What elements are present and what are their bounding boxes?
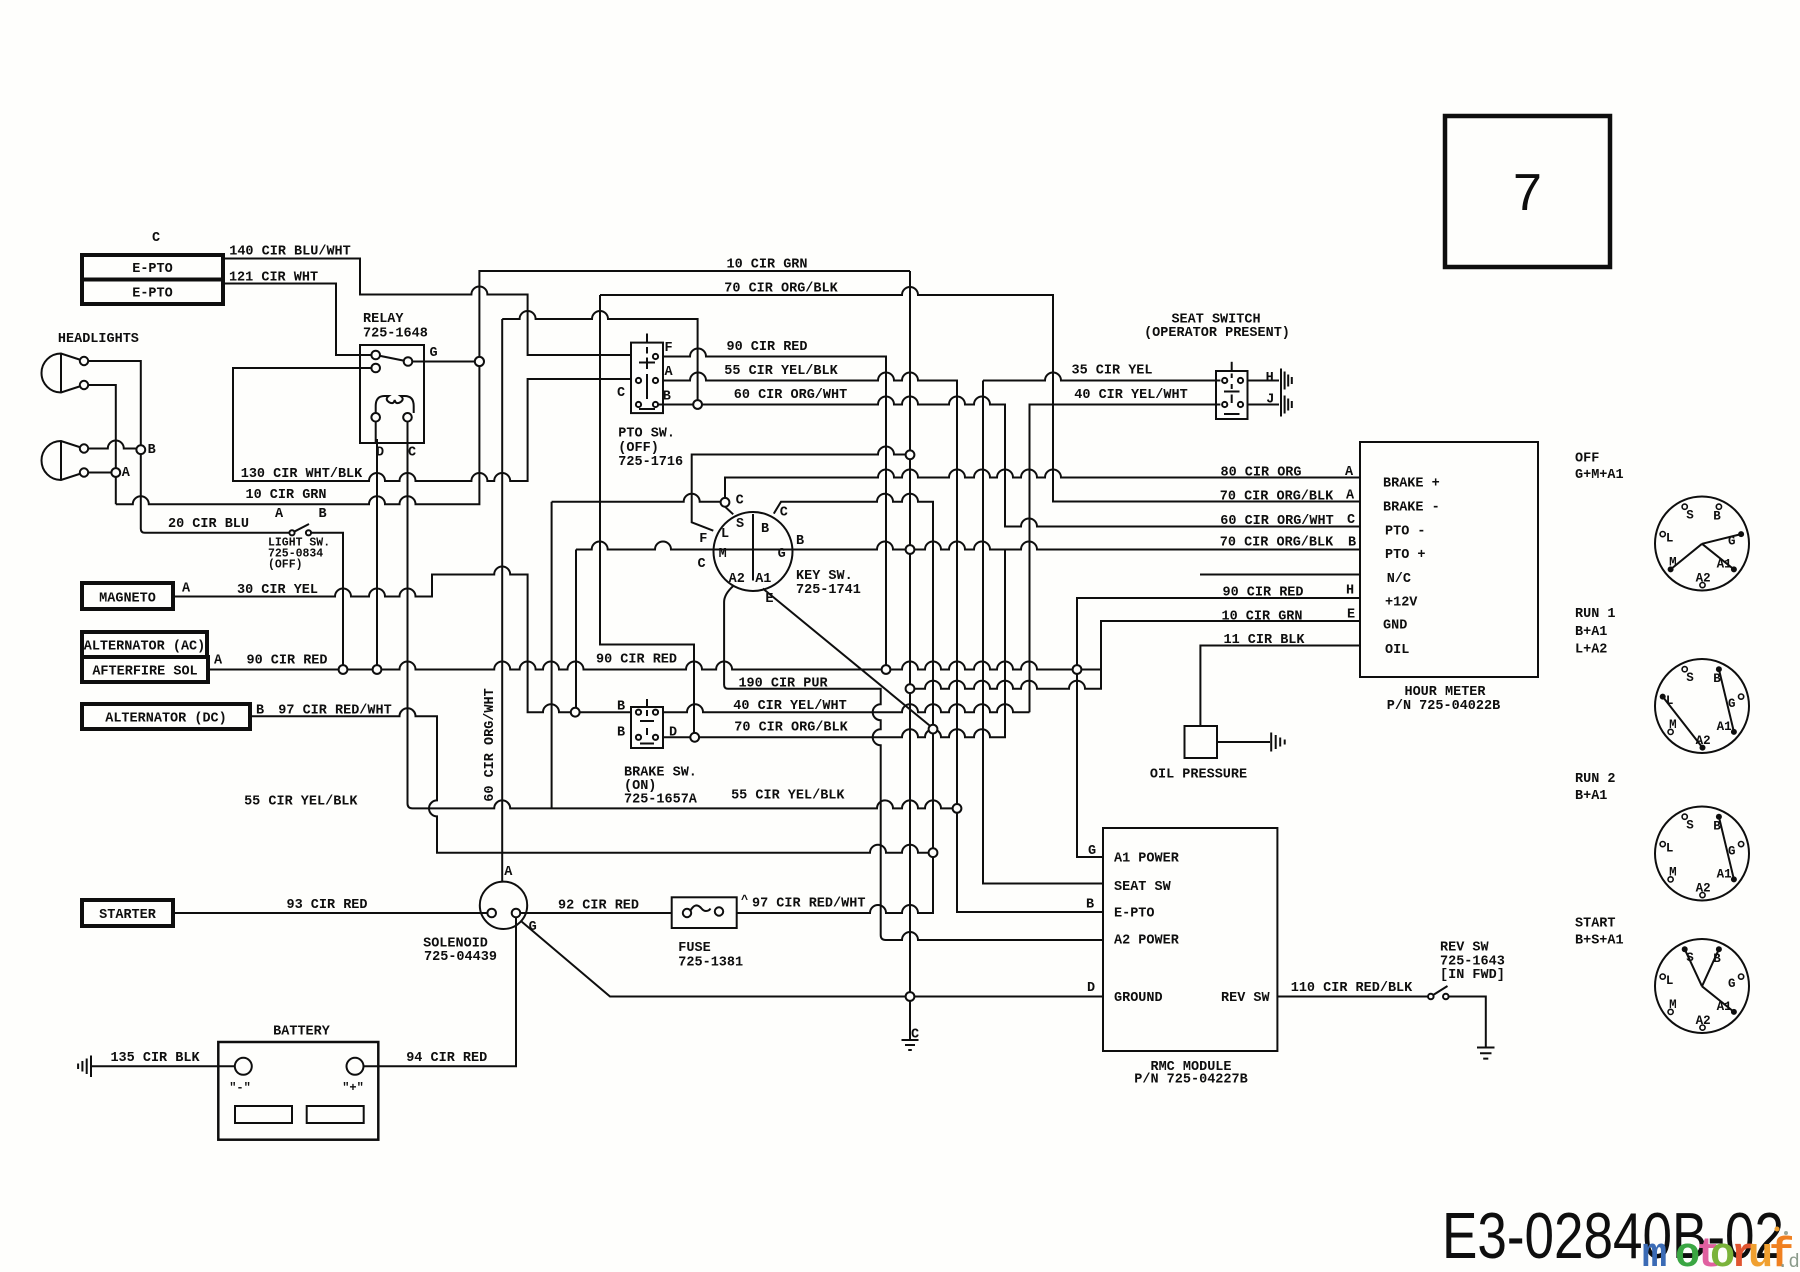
node relay G xyxy=(475,357,484,366)
svg-text:J: J xyxy=(1266,393,1274,408)
svg-text:.de: .de xyxy=(1777,1251,1800,1272)
svg-text:M: M xyxy=(1669,555,1677,569)
seat switch internals xyxy=(1222,362,1243,414)
svg-text:35 CIR YEL: 35 CIR YEL xyxy=(1071,364,1152,379)
svg-text:40 CIR YEL/WHT: 40 CIR YEL/WHT xyxy=(1074,388,1187,403)
svg-text:REV SW: REV SW xyxy=(1221,991,1271,1006)
svg-text:E-PTO: E-PTO xyxy=(1114,907,1155,922)
svg-text:REV SW: REV SW xyxy=(1440,940,1490,955)
wire 319 row to 60-row circle xyxy=(502,311,697,400)
key position circle OFF xyxy=(1655,497,1749,591)
wire rev switch to earth xyxy=(1448,997,1485,1047)
wire 11 CIR BLK to oil pressure xyxy=(1200,646,1360,727)
wire key C diagonal xyxy=(725,507,733,515)
wire ground row right to RMC xyxy=(914,996,1103,998)
key position circle RUN 2 xyxy=(1655,807,1749,901)
svg-text:BRAKE -: BRAKE - xyxy=(1383,501,1440,516)
svg-text:C: C xyxy=(617,386,625,401)
svg-text:B: B xyxy=(256,704,264,719)
wire oil pressure to ground xyxy=(1217,741,1270,743)
wire E-PTO1 140 CIR BLU/WHT to PTO switch F xyxy=(223,259,631,356)
node light switch to 90 red xyxy=(339,665,348,674)
svg-text:725-1381: 725-1381 xyxy=(678,955,743,970)
svg-text:A: A xyxy=(665,365,674,380)
svg-text:ALTERNATOR (DC): ALTERNATOR (DC) xyxy=(105,712,227,727)
svg-text:A: A xyxy=(182,582,191,597)
svg-text:[IN FWD]: [IN FWD] xyxy=(1440,968,1505,983)
svg-text:E: E xyxy=(1347,608,1355,623)
seat switch box xyxy=(1216,371,1248,419)
svg-text:D: D xyxy=(1087,981,1095,996)
wire seat vertical to RMC SEAT SW xyxy=(983,381,1103,884)
solenoid 725-04439 xyxy=(480,882,527,929)
svg-text:STARTER: STARTER xyxy=(99,908,157,923)
svg-text:C: C xyxy=(1347,513,1355,528)
svg-text:B: B xyxy=(761,522,769,537)
svg-text:A2: A2 xyxy=(729,572,745,587)
wire battery minus 135 CIR BLK xyxy=(92,1065,236,1067)
svg-text:A2: A2 xyxy=(1696,571,1711,585)
svg-text:97 CIR RED/WHT: 97 CIR RED/WHT xyxy=(752,897,865,912)
wire 90 CIR RED afterfire row xyxy=(208,669,339,671)
relay blade xyxy=(376,355,408,362)
hour meter box xyxy=(1360,442,1538,677)
svg-text:97 CIR RED/WHT: 97 CIR RED/WHT xyxy=(278,704,391,719)
svg-text:40 CIR YEL/WHT: 40 CIR YEL/WHT xyxy=(733,699,846,714)
svg-text:L: L xyxy=(1666,974,1674,988)
magneto box xyxy=(82,583,173,609)
svg-text:(OFF): (OFF) xyxy=(618,441,659,456)
WIRE LABELS xyxy=(110,245,1413,1066)
wire key M row and 70 ORG/BLK B row to hour meter xyxy=(576,542,906,550)
fuse element xyxy=(683,905,723,917)
svg-text:70 CIR ORG/BLK: 70 CIR ORG/BLK xyxy=(1220,490,1334,505)
svg-text:93 CIR RED: 93 CIR RED xyxy=(286,898,367,913)
svg-text:B+A1: B+A1 xyxy=(1575,789,1607,804)
svg-text:C: C xyxy=(408,446,416,461)
node 60 row PTO B xyxy=(693,400,702,409)
wire E-PTO2 121 CIR WHT to relay xyxy=(223,284,371,356)
svg-text:C: C xyxy=(697,557,705,572)
MODULE INTERNAL LABELS xyxy=(1114,477,1440,1007)
svg-text:B: B xyxy=(1713,510,1721,524)
wire 90 CIR RED H row to hour meter xyxy=(1077,598,1360,665)
ground symbol rev switch (earth) xyxy=(1477,1048,1495,1059)
svg-text:H: H xyxy=(1346,584,1354,599)
svg-text:M: M xyxy=(1669,718,1677,732)
svg-text:A1: A1 xyxy=(1717,868,1732,882)
svg-text:B: B xyxy=(617,700,625,715)
svg-text:92 CIR RED: 92 CIR RED xyxy=(558,899,639,914)
svg-text:60 CIR ORG/WHT: 60 CIR ORG/WHT xyxy=(1220,514,1333,529)
node 90 red F xyxy=(882,665,891,674)
svg-text:C: C xyxy=(911,1028,919,1043)
wire 35 CIR YEL to seat switch xyxy=(983,373,1220,381)
wire battery plus 94 CIR RED to solenoid G xyxy=(363,917,516,1066)
node key B row xyxy=(906,545,915,554)
wire 10 CIR GRN top row xyxy=(479,271,910,357)
light switch 725-0834 contacts xyxy=(289,530,311,535)
svg-text:ALTERNATOR (AC): ALTERNATOR (AC) xyxy=(84,640,206,655)
watermark dots xyxy=(1775,1227,1780,1232)
svg-text:140 CIR BLU/WHT: 140 CIR BLU/WHT xyxy=(229,245,351,260)
svg-text:L: L xyxy=(1666,842,1674,856)
svg-text:"-": "-" xyxy=(229,1081,251,1095)
wire relay pin2 to 130 CIR WHT/BLK to PTO switch A xyxy=(233,368,631,481)
svg-text:B: B xyxy=(796,534,804,549)
svg-text:+12V: +12V xyxy=(1385,596,1418,611)
svg-text:A1 POWER: A1 POWER xyxy=(1114,852,1180,867)
svg-text:55 CIR YEL/BLK: 55 CIR YEL/BLK xyxy=(244,795,358,810)
svg-text:S: S xyxy=(736,517,744,532)
svg-text:BATTERY: BATTERY xyxy=(273,1024,331,1039)
rev switch contacts xyxy=(1428,994,1449,1000)
relay coil xyxy=(376,396,414,413)
svg-text:20 CIR BLU: 20 CIR BLU xyxy=(168,517,249,532)
svg-text:A2: A2 xyxy=(1696,1014,1711,1028)
wire key C row left segment xyxy=(551,502,553,809)
RMC module box xyxy=(1103,828,1277,1051)
svg-text:G: G xyxy=(1728,697,1736,711)
svg-text:F: F xyxy=(699,532,707,547)
wire headlight2 top to node B xyxy=(84,441,136,449)
wire A1 POWER riser xyxy=(1077,674,1103,857)
oil pressure box xyxy=(1185,726,1218,758)
wire PTO B 60 CIR ORG/WHT to hour meter C xyxy=(656,404,694,406)
svg-text:E-PTO: E-PTO xyxy=(132,262,173,277)
svg-text:A: A xyxy=(504,865,513,880)
wire 10 CIR GRN mid row headlights xyxy=(116,366,480,504)
svg-text:B: B xyxy=(1348,536,1356,551)
wire V933 between circles xyxy=(932,734,934,849)
svg-text:B: B xyxy=(318,507,326,522)
svg-text:130 CIR WHT/BLK: 130 CIR WHT/BLK xyxy=(241,467,363,482)
starter box xyxy=(82,900,173,926)
wire PTO A 55 CIR YEL/BLK to RMC E-PTO xyxy=(663,373,1103,913)
svg-text:m: m xyxy=(1642,1231,1667,1272)
fuse box xyxy=(672,897,737,928)
svg-text:(OFF): (OFF) xyxy=(268,559,303,572)
svg-text:135 CIR BLK: 135 CIR BLK xyxy=(110,1051,200,1066)
svg-text:GROUND: GROUND xyxy=(1114,991,1163,1006)
wire relay D vertical xyxy=(376,439,378,665)
E-PTO connector box 2 xyxy=(82,280,223,305)
wire seat switch H out xyxy=(1248,380,1280,382)
svg-text:G: G xyxy=(1728,845,1736,859)
wire key F diagonal up to 455 row xyxy=(692,447,906,531)
wire 40 CIR YEL/WHT mid row xyxy=(663,704,1030,712)
wire starter 93 CIR RED xyxy=(173,912,487,914)
relay pin verticals to box bottom xyxy=(376,422,408,443)
alternator AC box xyxy=(82,632,207,657)
svg-text:MAGNETO: MAGNETO xyxy=(99,591,156,606)
svg-text:70 CIR ORG/BLK: 70 CIR ORG/BLK xyxy=(1220,536,1334,551)
svg-text:PTO -: PTO - xyxy=(1385,525,1426,540)
svg-text:M: M xyxy=(1669,998,1677,1012)
motoruf.de watermark xyxy=(1642,1231,1800,1272)
svg-text:A2: A2 xyxy=(1696,881,1711,895)
svg-text:S: S xyxy=(1686,509,1694,523)
wire N/C stub xyxy=(1200,574,1360,576)
svg-text:725-1741: 725-1741 xyxy=(796,583,861,598)
battery box xyxy=(218,1042,378,1140)
wire 70 top jog to brake D circle xyxy=(600,295,694,733)
wire seat switch J out xyxy=(1248,404,1280,406)
svg-text:^: ^ xyxy=(741,893,748,907)
wire light switch blade xyxy=(292,524,309,533)
svg-text:S: S xyxy=(1686,671,1694,685)
key position circle START xyxy=(1655,939,1749,1033)
svg-text:HEADLIGHTS: HEADLIGHTS xyxy=(58,332,139,347)
svg-text:A1: A1 xyxy=(1717,720,1732,734)
svg-text:G: G xyxy=(778,547,786,562)
headlight 2 lamp symbol xyxy=(42,441,85,480)
svg-text:725-04439: 725-04439 xyxy=(424,950,497,965)
wire ground row at 688 to hour meter GND xyxy=(914,621,1360,689)
node relay D to 90 red xyxy=(373,665,382,674)
wire RMC REV SW 110 CIR RED/BLK xyxy=(1277,996,1428,998)
svg-text:10 CIR GRN: 10 CIR GRN xyxy=(245,488,326,503)
node headlight A xyxy=(111,468,120,477)
svg-text:G: G xyxy=(1728,977,1736,991)
wire fuse 97 CIR RED/WHT to circle xyxy=(737,857,933,913)
wire relay G row xyxy=(412,361,475,363)
svg-text:A: A xyxy=(1346,489,1355,504)
svg-text:190 CIR PUR: 190 CIR PUR xyxy=(738,676,828,691)
svg-text:C: C xyxy=(780,506,788,521)
svg-text:70 CIR ORG/BLK: 70 CIR ORG/BLK xyxy=(724,282,838,297)
svg-text:110 CIR RED/BLK: 110 CIR RED/BLK xyxy=(1291,981,1413,996)
node key C xyxy=(721,498,730,507)
relay pin circles xyxy=(371,351,380,360)
wire key internal vertical chord xyxy=(752,514,754,581)
svg-text:A: A xyxy=(275,507,284,522)
svg-text:RUN 1: RUN 1 xyxy=(1575,607,1616,622)
node 10GRN x455 xyxy=(906,450,915,459)
svg-text:H: H xyxy=(1266,371,1274,386)
svg-text:70 CIR ORG/BLK: 70 CIR ORG/BLK xyxy=(734,721,848,736)
svg-text:10 CIR GRN: 10 CIR GRN xyxy=(1221,610,1302,625)
svg-text:B+S+A1: B+S+A1 xyxy=(1575,934,1624,949)
svg-text:N/C: N/C xyxy=(1387,572,1411,587)
svg-text:E-PTO: E-PTO xyxy=(132,287,173,302)
svg-text:C: C xyxy=(152,231,160,246)
headlight terminals xyxy=(80,357,88,365)
svg-text:10 CIR GRN: 10 CIR GRN xyxy=(726,258,807,273)
svg-text:7: 7 xyxy=(1513,164,1542,222)
svg-text:S: S xyxy=(1686,819,1694,833)
svg-text:G: G xyxy=(429,346,437,361)
wire 40 CIR YEL/WHT right to seat switch xyxy=(1030,405,1221,713)
svg-text:D: D xyxy=(376,446,384,461)
svg-text:L: L xyxy=(1666,532,1674,546)
svg-text:A: A xyxy=(122,466,131,481)
svg-text:E: E xyxy=(765,592,773,607)
svg-text:A1: A1 xyxy=(1717,1000,1732,1014)
svg-text:94 CIR RED: 94 CIR RED xyxy=(406,1051,487,1066)
svg-text:B: B xyxy=(1086,898,1094,913)
node A1 90 red xyxy=(1073,665,1082,674)
svg-text:G: G xyxy=(529,920,537,935)
PTO switch box xyxy=(631,343,663,414)
svg-text:L+A2: L+A2 xyxy=(1575,643,1607,658)
svg-text:L: L xyxy=(721,527,729,542)
node headlight B xyxy=(136,445,145,454)
svg-text:B: B xyxy=(1713,820,1721,834)
wire magneto 30 CIR YEL to brake switch xyxy=(173,567,571,713)
svg-text:121 CIR WHT: 121 CIR WHT xyxy=(229,271,318,286)
wire solenoid 92 CIR RED to fuse xyxy=(520,912,672,914)
svg-text:OIL PRESSURE: OIL PRESSURE xyxy=(1150,768,1247,783)
svg-text:G: G xyxy=(1728,535,1736,549)
relay internals xyxy=(371,351,413,443)
wire key M vertical to 40 row circle xyxy=(575,550,577,708)
svg-text:90 CIR RED: 90 CIR RED xyxy=(726,340,807,355)
svg-text:GND: GND xyxy=(1383,619,1407,634)
wire key C right diagonal and row to V933 xyxy=(774,494,933,725)
svg-text:725-1657A: 725-1657A xyxy=(624,793,698,808)
wire light switch B to 90 CIR RED node xyxy=(311,533,343,665)
svg-text:B: B xyxy=(617,726,625,741)
wire solenoid G diagonal to ground row xyxy=(522,922,906,997)
svg-text:D: D xyxy=(669,726,677,741)
wire headlight1 bottom to node A xyxy=(84,385,116,468)
KEY POSITION LABELS xyxy=(1575,452,1736,1028)
svg-text:90 CIR RED: 90 CIR RED xyxy=(246,654,327,669)
svg-text:B: B xyxy=(663,390,671,405)
wire relay C to 55 CIR YEL/BLK row xyxy=(408,430,953,809)
svg-text:P/N 725-04022B: P/N 725-04022B xyxy=(1387,699,1500,714)
wire node A down to green row xyxy=(115,477,117,504)
svg-text:AFTERFIRE SOL: AFTERFIRE SOL xyxy=(92,665,197,680)
node 70 row brake D xyxy=(690,733,699,742)
svg-text:M: M xyxy=(1669,865,1677,879)
svg-text:G: G xyxy=(1088,844,1096,859)
svg-text:G+M+A1: G+M+A1 xyxy=(1575,468,1624,483)
svg-text:30 CIR YEL: 30 CIR YEL xyxy=(237,583,318,598)
svg-text:OFF: OFF xyxy=(1575,452,1599,467)
svg-text:60 CIR ORG/WHT: 60 CIR ORG/WHT xyxy=(734,388,847,403)
svg-text:FUSE: FUSE xyxy=(678,941,710,956)
svg-text:A2 POWER: A2 POWER xyxy=(1114,934,1180,949)
svg-text:B: B xyxy=(1713,952,1721,966)
node 40 row M xyxy=(571,708,580,717)
svg-text:A1: A1 xyxy=(1717,558,1732,572)
node ground row RMC xyxy=(906,992,915,1001)
relay 725-1648 box xyxy=(360,345,424,443)
svg-text:S: S xyxy=(1686,951,1694,965)
wire rev switch blade xyxy=(1431,986,1448,997)
svg-text:55 CIR YEL/BLK: 55 CIR YEL/BLK xyxy=(724,364,838,379)
ground symbol seat H xyxy=(1281,369,1292,393)
wire key E diagonal xyxy=(763,589,930,727)
wire headlight2 bottom to node A xyxy=(84,472,111,474)
wire PTO F 90 CIR RED xyxy=(663,349,886,666)
node ground 688 xyxy=(906,684,915,693)
brake switch internals xyxy=(636,699,658,744)
svg-text:90 CIR RED: 90 CIR RED xyxy=(1222,586,1303,601)
svg-text:725-1648: 725-1648 xyxy=(363,327,428,342)
wire headlight1 top to node B xyxy=(84,361,141,445)
battery plate right xyxy=(307,1106,364,1123)
svg-text:KEY SW.: KEY SW. xyxy=(796,569,853,584)
key switch 725-1741 circle xyxy=(714,512,793,591)
ground symbol battery (vertical bars) xyxy=(78,1056,91,1078)
svg-text:A2: A2 xyxy=(1696,734,1711,748)
node 55 row to E-PTO xyxy=(953,804,962,813)
ground symbol oil pressure xyxy=(1271,733,1285,752)
wire 80 CIR ORG row to hour meter A xyxy=(725,470,1360,498)
wire 70 CIR ORG/BLK top row xyxy=(600,287,1360,502)
COMPONENT BOXES xyxy=(82,116,1610,1140)
node 97 red wht xyxy=(929,848,938,857)
svg-text:SEAT SW: SEAT SW xyxy=(1114,880,1172,895)
node key E to 97 xyxy=(929,725,938,734)
headlight 1 lamp symbol xyxy=(42,354,85,393)
wire alternator DC 97 CIR RED/WHT xyxy=(250,708,929,852)
svg-text:P/N 725-04227B: P/N 725-04227B xyxy=(1134,1073,1247,1088)
svg-text:"+": "+" xyxy=(342,1081,364,1095)
PTO switch internals xyxy=(636,334,658,410)
battery terminals xyxy=(235,1058,364,1075)
svg-text:B: B xyxy=(148,443,156,458)
svg-text:90 CIR RED: 90 CIR RED xyxy=(596,653,677,668)
svg-text:L: L xyxy=(1666,694,1674,708)
wire 10 CIR GRN main vertical xyxy=(909,271,911,450)
svg-text:OIL: OIL xyxy=(1385,643,1409,658)
key position circle RUN 1 xyxy=(1655,659,1749,753)
svg-text:F: F xyxy=(665,341,673,356)
svg-text:60 CIR ORG/WHT: 60 CIR ORG/WHT xyxy=(483,688,498,801)
svg-text:A: A xyxy=(1345,465,1354,480)
PIN LETTER LABELS xyxy=(122,341,1356,1043)
svg-text:11 CIR BLK: 11 CIR BLK xyxy=(1223,633,1305,648)
ground symbol chassis C (earth) xyxy=(902,1040,919,1050)
svg-text:A1: A1 xyxy=(755,572,771,587)
svg-text:PTO +: PTO + xyxy=(1385,548,1426,563)
svg-text:PTO SW.: PTO SW. xyxy=(618,427,675,442)
wire 60 CIR ORG/WHT vertical to solenoid A xyxy=(501,319,503,882)
svg-text:A: A xyxy=(214,654,223,669)
svg-text:B: B xyxy=(1713,672,1721,686)
wire 70 CIR ORG/BLK brake D row xyxy=(663,736,690,738)
svg-text:55 CIR YEL/BLK: 55 CIR YEL/BLK xyxy=(731,789,845,804)
svg-text:C: C xyxy=(736,494,744,509)
number 7 frame box xyxy=(1445,116,1610,267)
wire node B to 20 CIR BLU light switch xyxy=(141,454,289,533)
brake switch box xyxy=(631,707,663,748)
wire key A2 190 CIR PUR xyxy=(724,586,1103,941)
svg-text:RUN 2: RUN 2 xyxy=(1575,772,1616,787)
svg-text:(OPERATOR PRESENT): (OPERATOR PRESENT) xyxy=(1144,326,1290,341)
svg-text:M: M xyxy=(719,547,727,562)
svg-text:80 CIR ORG: 80 CIR ORG xyxy=(1220,466,1301,481)
svg-text:HOUR METER: HOUR METER xyxy=(1404,685,1486,700)
svg-text:725-1716: 725-1716 xyxy=(618,455,683,470)
svg-text:RELAY: RELAY xyxy=(363,312,404,327)
svg-text:BRAKE +: BRAKE + xyxy=(1383,477,1440,492)
afterfire sol box xyxy=(82,657,208,682)
battery plate left xyxy=(235,1106,292,1123)
E-PTO connector box 1 xyxy=(82,255,223,280)
svg-text:START: START xyxy=(1575,917,1616,932)
svg-text:B+A1: B+A1 xyxy=(1575,625,1607,640)
ground symbol seat J xyxy=(1281,393,1292,417)
wire 40-row circle to brake switch left xyxy=(580,711,631,713)
alternator DC box xyxy=(82,704,250,729)
